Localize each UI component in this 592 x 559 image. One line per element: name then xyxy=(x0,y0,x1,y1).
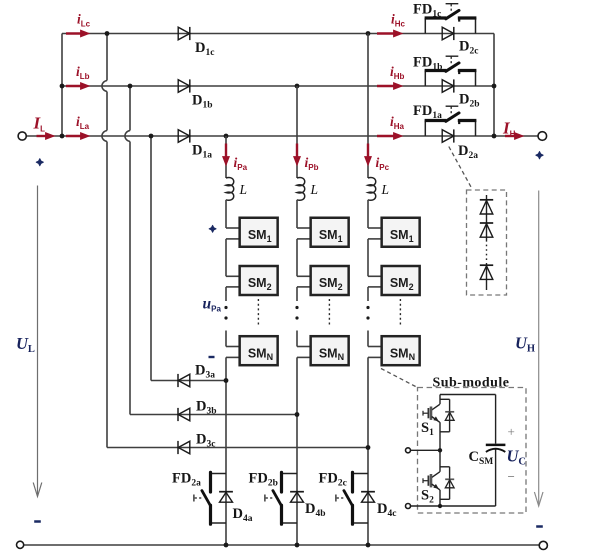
wire : dashed continuation in SM stack (leg c) xyxy=(399,299,401,327)
wire : S2 collector jog xyxy=(440,466,450,468)
wire : leg a SM1 to SM2 xyxy=(226,238,240,240)
voltage arrow U_L xyxy=(37,186,39,497)
current arrow i_Pa xyxy=(225,144,227,160)
wire : D3c row xyxy=(107,447,368,449)
inductor L (leg a) xyxy=(226,178,234,201)
diode D3b xyxy=(178,408,190,421)
wire : dashed continuation in SM stack (leg b) xyxy=(328,299,330,327)
wire : leg a lower section to bottom rail xyxy=(226,356,240,358)
switch FD2c xyxy=(353,473,369,475)
diode D3c xyxy=(178,441,190,454)
callout dashed line from D2a to diode-string box xyxy=(449,147,471,188)
wire : leg c lower section to bottom rail xyxy=(368,356,382,358)
callout dashed line from SMN to sub-module box xyxy=(381,369,418,388)
node : bottom-right terminal xyxy=(539,541,547,549)
wire : right vertical bus joining three output rails xyxy=(493,34,495,137)
current arrow i_Ha xyxy=(377,135,397,137)
sub-module box SM2 (leg b) xyxy=(311,266,349,295)
polarity minus (U_L) xyxy=(34,520,41,523)
svg-text:L: L xyxy=(310,182,319,197)
wire : leg b to SMN xyxy=(296,331,298,347)
wire : vertical from row a down to D3a row xyxy=(150,136,152,381)
svg-text:−: − xyxy=(508,469,515,484)
wire : sub-module left bus xyxy=(439,395,441,405)
diode D4a xyxy=(219,491,233,493)
sub-module detail dashed box xyxy=(418,388,527,514)
inductor L (leg b) xyxy=(297,178,305,201)
node : D3a junction xyxy=(224,378,229,383)
current arrow i_Lc xyxy=(66,32,84,34)
diode D1a xyxy=(178,130,190,143)
diode (string top) xyxy=(480,199,493,201)
wire : leg c below SM2 xyxy=(368,286,382,288)
switch FD1b xyxy=(424,71,426,87)
diode (string bottom) xyxy=(480,264,493,266)
node : sub-module bottom junction xyxy=(438,504,442,508)
polarity minus (u_Pa) xyxy=(209,356,215,358)
wire : sub-module top rail xyxy=(440,394,496,396)
diode D3a xyxy=(178,374,190,387)
polarity plus star (U_H) xyxy=(536,152,543,159)
sub-module box SMN (leg c) xyxy=(382,336,420,365)
wire : leg c SM1 to SM2 xyxy=(368,238,382,240)
wire : bottom common rail xyxy=(24,544,539,546)
diode D2a xyxy=(442,130,454,143)
node : bottom rail junction leg b xyxy=(295,543,300,548)
current arrow i_Pb xyxy=(296,144,298,160)
detail box: series diode string (FD internals) xyxy=(467,190,507,295)
sub-module box SM1 (leg c) xyxy=(382,218,420,247)
diode D4c xyxy=(361,491,375,493)
wire : leg b below SM2 xyxy=(297,286,311,288)
wire : diode string vertical xyxy=(486,195,488,240)
wire : left vertical bus joining three input rails xyxy=(61,34,63,137)
node : sub-module mid terminal xyxy=(406,448,411,453)
diode D4b xyxy=(290,491,304,493)
current arrow i_Pc xyxy=(367,144,369,160)
wire : phase leg b upper section xyxy=(296,86,298,178)
node : junctions on input rails xyxy=(60,84,65,89)
wire : D3a row xyxy=(151,380,226,382)
wire : S1 collector jog xyxy=(440,398,450,400)
wire : leg a below SM2 xyxy=(226,286,240,288)
node : left input terminal xyxy=(18,132,26,140)
sub-module box SMN (leg a) xyxy=(240,336,278,365)
node : D3c junction xyxy=(366,445,371,450)
diode : S1 antiparallel xyxy=(445,411,454,413)
diode : S2 antiparallel xyxy=(445,478,454,480)
switch FD1c xyxy=(424,18,426,34)
wire : leg b coil to SM1 xyxy=(296,200,298,228)
wire : leg b lower section to bottom rail xyxy=(297,356,311,358)
node : sub-module mid junction xyxy=(438,448,442,452)
wire : phase leg c upper section xyxy=(367,34,369,179)
wire : dashed continuation in SM stack (leg a) xyxy=(257,299,259,327)
transistor S1 body xyxy=(432,404,440,410)
inductor L (leg c) xyxy=(368,178,376,201)
node : bottom rail junction leg a xyxy=(224,543,229,548)
wire : D3b row xyxy=(130,414,297,416)
diode D1b xyxy=(178,80,190,93)
svg-text:L: L xyxy=(239,182,248,197)
polarity minus (U_H) xyxy=(536,525,543,528)
current arrow i_Hb xyxy=(377,85,397,87)
svg-text:L: L xyxy=(381,182,390,197)
current arrow I_H xyxy=(505,135,518,137)
capacitor C_SM branch xyxy=(495,395,497,444)
diode D2b xyxy=(442,80,454,93)
sub-module box SM1 (leg a) xyxy=(240,218,278,247)
node : continuation dots leg c xyxy=(366,306,369,309)
node : bottom rail junction leg c xyxy=(366,543,371,548)
wire : sub-module mid rail xyxy=(408,449,440,451)
current arrow i_La xyxy=(66,135,84,137)
node : right output terminal xyxy=(538,132,547,141)
diode D2c xyxy=(442,27,454,40)
wire : leg b SM1 to SM2 xyxy=(297,238,311,240)
switch FD2b xyxy=(282,473,298,475)
diode D1c xyxy=(178,27,190,40)
wire : sub-module bottom rail xyxy=(408,505,495,507)
wire : vertical from row c down to D3c row (with crossovers) xyxy=(106,34,108,81)
wire : phase leg a upper section xyxy=(225,136,227,178)
wire : leg c coil to SM1 xyxy=(367,200,369,228)
switch FD2a xyxy=(211,473,227,475)
diode (string middle) xyxy=(480,222,493,224)
svg-text:+: + xyxy=(508,424,515,439)
current arrow I_L xyxy=(37,135,49,137)
sub-module box SMN (leg b) xyxy=(311,336,349,365)
node : bottom-left terminal xyxy=(17,541,24,548)
wire : low-voltage input rail (row a) xyxy=(26,135,538,137)
node : D3b junction xyxy=(295,412,300,417)
current arrow i_Lb xyxy=(66,85,84,87)
node : sub-module bottom terminal xyxy=(406,504,411,509)
transistor S2 body xyxy=(432,472,440,478)
wire : leg c to SMN xyxy=(367,331,369,347)
wire : leg a to SMN xyxy=(225,331,227,347)
wire : vertical from row b down to D3b row (with crossover) xyxy=(129,86,131,131)
wire : leg a coil to SM1 xyxy=(225,200,227,228)
sub-module box SM2 (leg a) xyxy=(240,266,278,295)
wire : phase-b top rail (row b) xyxy=(62,85,494,87)
voltage arrow U_H xyxy=(538,191,540,506)
switch FD1a xyxy=(424,121,426,137)
node : continuation dots leg a xyxy=(224,306,227,309)
wire : phase-c top rail (row c) xyxy=(62,33,494,35)
sub-module box SM1 (leg b) xyxy=(311,218,349,247)
current arrow i_Hc xyxy=(377,32,397,34)
sub-module box SM2 (leg c) xyxy=(382,266,420,295)
polarity plus star (U_L) xyxy=(36,159,43,166)
polarity plus star (u_Pa) xyxy=(209,225,216,232)
node : continuation dots leg b xyxy=(295,306,298,309)
svg-text:Sub-module: Sub-module xyxy=(433,376,510,391)
